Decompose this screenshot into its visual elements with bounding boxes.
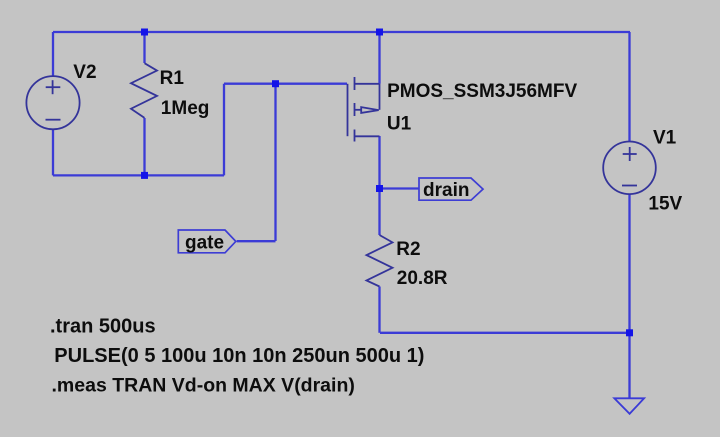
- svg-text:gate: gate: [185, 233, 224, 254]
- svg-text:V1: V1: [653, 127, 677, 148]
- svg-text:drain: drain: [423, 180, 469, 201]
- svg-text:R1: R1: [160, 68, 185, 89]
- svg-text:15V: 15V: [648, 194, 682, 215]
- svg-text:1Meg: 1Meg: [161, 98, 210, 119]
- svg-text:U1: U1: [387, 114, 412, 135]
- svg-text:V2: V2: [73, 62, 96, 83]
- svg-text:PULSE(0 5 100u 10n 10n 250un 5: PULSE(0 5 100u 10n 10n 250un 500u 1): [54, 345, 424, 367]
- svg-text:.meas TRAN Vd-on MAX V(drain): .meas TRAN Vd-on MAX V(drain): [52, 374, 355, 396]
- svg-text:20.8R: 20.8R: [397, 268, 448, 289]
- svg-text:PMOS_SSM3J56MFV: PMOS_SSM3J56MFV: [387, 81, 577, 102]
- svg-text:R2: R2: [396, 239, 420, 260]
- svg-text:.tran 500us: .tran 500us: [50, 316, 156, 338]
